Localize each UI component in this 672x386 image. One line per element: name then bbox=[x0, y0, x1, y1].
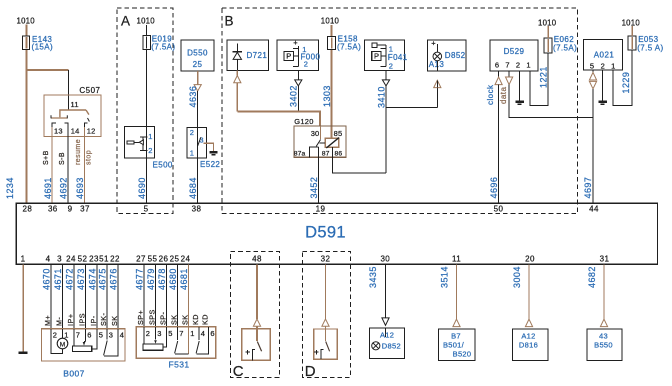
svg-text:4673: 4673 bbox=[76, 268, 86, 290]
wire 4672 D591 pin 24 to B007 pin 7 bbox=[73, 264, 75, 329]
connector arrow (up) under D852/A13 bbox=[434, 80, 441, 87]
D529 pin 7 data wire bbox=[508, 71, 510, 77]
svg-text:14: 14 bbox=[71, 127, 80, 136]
svg-text:3004: 3004 bbox=[512, 266, 522, 288]
wire G120 pin 86 to F041 circuit bbox=[333, 147, 387, 173]
svg-text:2: 2 bbox=[190, 128, 195, 137]
svg-text:M: M bbox=[60, 341, 65, 348]
wire 4671 D591 pin 3 to B007 pin 1 bbox=[62, 264, 64, 329]
svg-text:3514: 3514 bbox=[440, 266, 450, 288]
F531 KD switch pins 4-6 bbox=[198, 327, 200, 340]
control unit A021 bbox=[584, 40, 623, 71]
svg-text:2: 2 bbox=[516, 60, 520, 69]
fuse E143 (15A) bbox=[23, 36, 30, 50]
svg-text:1: 1 bbox=[190, 148, 195, 157]
svg-text:1: 1 bbox=[148, 132, 153, 141]
wire 3410 bbox=[385, 86, 387, 173]
svg-text:7: 7 bbox=[505, 60, 509, 69]
wire 4676 D591 pin 22 to B007 pin 4 bbox=[117, 264, 119, 329]
svg-text:7: 7 bbox=[179, 329, 183, 338]
svg-text:11: 11 bbox=[452, 254, 461, 263]
wire 4678 D591 pin 26 to F531 pin 5 bbox=[166, 264, 168, 327]
svg-text:30: 30 bbox=[380, 254, 390, 263]
svg-text:B: B bbox=[225, 14, 234, 29]
svg-text:B007: B007 bbox=[63, 369, 84, 379]
wire 4636 to switch E522 bbox=[197, 91, 199, 127]
svg-text:D816: D816 bbox=[519, 341, 538, 350]
svg-text:E522: E522 bbox=[200, 160, 220, 169]
B007 wash pump motor M bbox=[62, 329, 64, 338]
svg-text:4670: 4670 bbox=[41, 268, 51, 290]
svg-text:36: 36 bbox=[48, 204, 58, 213]
wire 4675 D591 pin 51 to B007 pin 3 bbox=[106, 264, 108, 329]
branch wire to indicator lamp D852 bbox=[386, 107, 437, 109]
svg-text:6: 6 bbox=[210, 329, 214, 338]
svg-text:SK-: SK- bbox=[99, 313, 108, 326]
wire 1234 brown feed from fuse E143 down to D591 pin 28 bbox=[26, 25, 28, 204]
A021 pin 5 wire with double arrows bbox=[592, 70, 594, 72]
brake switch in box C bbox=[242, 329, 270, 361]
svg-text:87a: 87a bbox=[294, 151, 306, 158]
wire from D591 pin 48 (thick brown) bbox=[256, 264, 258, 319]
connector arrow (up) on clock wire bbox=[495, 77, 502, 85]
svg-text:1010: 1010 bbox=[538, 18, 557, 27]
svg-text:23: 23 bbox=[89, 254, 99, 263]
svg-text:1010: 1010 bbox=[17, 16, 36, 25]
wire from D550 to connector bbox=[197, 71, 199, 85]
svg-text:4636: 4636 bbox=[188, 86, 198, 108]
connector arrow (down) under F041 bbox=[382, 80, 389, 86]
svg-text:2: 2 bbox=[389, 62, 394, 71]
wire from D852 arrow down to 3410 branch bbox=[436, 80, 438, 87]
svg-text:(7.5A): (7.5A) bbox=[553, 43, 577, 52]
wire 4674 D591 pin 23 to B007 pin 5 bbox=[96, 264, 98, 329]
svg-text:1234: 1234 bbox=[5, 177, 15, 199]
relay feed line (brown) D721/F000 to G120 pin 30 bbox=[237, 112, 320, 126]
svg-text:A13: A13 bbox=[429, 60, 445, 69]
svg-text:1221: 1221 bbox=[538, 66, 548, 88]
svg-text:B501/: B501/ bbox=[443, 341, 465, 350]
svg-text:(15A): (15A) bbox=[32, 43, 54, 52]
buzzer E500 bbox=[125, 127, 155, 159]
svg-text:2: 2 bbox=[53, 330, 57, 339]
svg-text:+: + bbox=[293, 38, 298, 47]
svg-text:20: 20 bbox=[525, 254, 535, 263]
svg-text:4682: 4682 bbox=[587, 266, 597, 288]
sensor B7 / B501 / B520 bbox=[439, 329, 476, 360]
connector arrow (up) below D721 bbox=[234, 76, 241, 83]
svg-text:38: 38 bbox=[192, 204, 202, 213]
svg-text:D721: D721 bbox=[247, 51, 268, 60]
G120 switch blade bbox=[316, 140, 320, 147]
svg-text:(7.5A): (7.5A) bbox=[337, 43, 361, 52]
svg-text:4677: 4677 bbox=[134, 268, 144, 290]
svg-text:30: 30 bbox=[311, 129, 320, 138]
brown wire from D721 down to relay feed line bbox=[236, 83, 238, 112]
svg-text:37: 37 bbox=[80, 204, 90, 213]
steering wheel switch F531 bbox=[136, 327, 215, 359]
connector arrow (up) in box D bbox=[322, 319, 329, 326]
svg-text:52: 52 bbox=[78, 254, 88, 263]
instrument A12 with D816 bbox=[513, 329, 548, 360]
svg-text:IP+: IP+ bbox=[66, 314, 75, 326]
svg-text:B7: B7 bbox=[451, 332, 461, 341]
wire F000 pin 2 down bbox=[297, 71, 299, 80]
svg-text:(7.5 A): (7.5 A) bbox=[637, 43, 663, 52]
dashed option box C bbox=[231, 251, 280, 377]
wire 4697 to D591 pin 44 bbox=[592, 89, 594, 203]
svg-text:4693: 4693 bbox=[75, 177, 85, 199]
svg-text:4681: 4681 bbox=[179, 268, 189, 290]
fuse E053 (7.5 A) bbox=[628, 36, 636, 50]
svg-text:1: 1 bbox=[21, 254, 26, 263]
wire from D591 pin 32 bbox=[325, 264, 327, 319]
svg-text:7: 7 bbox=[76, 330, 80, 339]
dashed option box A bbox=[117, 8, 173, 214]
C507 pin 12 blade lead bbox=[88, 118, 90, 122]
svg-text:22: 22 bbox=[110, 254, 120, 263]
svg-text:SK: SK bbox=[169, 315, 178, 326]
svg-text:4: 4 bbox=[46, 254, 51, 263]
connector arrow (down) on data wire bbox=[506, 77, 513, 85]
G120 pin 30 wire (brown feed) bbox=[320, 126, 322, 139]
svg-text:11: 11 bbox=[71, 100, 79, 109]
svg-text:1: 1 bbox=[64, 330, 68, 339]
wire 3402 to relay feed line bbox=[297, 86, 299, 112]
wire 4677 D591 pin 27 to F531 pin 2 bbox=[143, 264, 145, 327]
svg-text:2: 2 bbox=[601, 61, 605, 70]
svg-text:B520: B520 bbox=[453, 350, 472, 359]
svg-text:13: 13 bbox=[54, 127, 63, 136]
svg-text:48: 48 bbox=[252, 254, 262, 263]
plus terminal in box C bbox=[245, 351, 250, 353]
svg-text:24: 24 bbox=[66, 254, 76, 263]
svg-text:1010: 1010 bbox=[321, 16, 340, 25]
D529 pin 2 wire to ground bbox=[519, 71, 521, 101]
svg-text:IP-: IP- bbox=[89, 315, 98, 326]
control unit D550 bbox=[181, 40, 214, 71]
svg-text:1010: 1010 bbox=[137, 16, 156, 25]
instrument A12 with lamp D852 bbox=[370, 328, 405, 359]
svg-text:4684: 4684 bbox=[188, 177, 198, 199]
svg-text:12: 12 bbox=[87, 127, 96, 136]
wire 4679 D591 pin 55 to F531 pin 3 bbox=[155, 264, 157, 327]
svg-text:5: 5 bbox=[99, 330, 103, 339]
wire 4692 C507 pin14 to D591 pin9 bbox=[67, 127, 69, 203]
wire F041 pin 2 down bbox=[385, 71, 387, 80]
fuse E019 (7.5A) bbox=[143, 36, 151, 50]
D529 pin 6 clock wire bbox=[498, 71, 500, 77]
svg-text:SK: SK bbox=[180, 315, 189, 326]
pump F000 bbox=[277, 40, 318, 71]
svg-text:3435: 3435 bbox=[368, 266, 378, 288]
B007 park switch pins 3-4 bbox=[106, 329, 108, 340]
wire 4696 clock to D591 pin 50 bbox=[498, 85, 500, 204]
svg-text:9: 9 bbox=[68, 204, 73, 213]
svg-text:4: 4 bbox=[120, 330, 124, 339]
svg-text:4674: 4674 bbox=[87, 268, 97, 290]
svg-text:3: 3 bbox=[157, 329, 161, 338]
wire from D721 to connector arrow bbox=[236, 71, 238, 76]
svg-text:1: 1 bbox=[190, 329, 194, 338]
svg-text:24: 24 bbox=[181, 254, 191, 263]
svg-text:D852: D852 bbox=[445, 51, 466, 60]
svg-text:data: data bbox=[499, 87, 508, 104]
svg-text:85: 85 bbox=[334, 129, 343, 138]
fuse E158 (7.5A) bbox=[328, 37, 336, 50]
wire 4681 D591 pin 24 to F531 pin 1 bbox=[188, 264, 190, 327]
indicator lamp D852 in instrument A13 bbox=[428, 40, 467, 71]
svg-text:E500: E500 bbox=[153, 161, 173, 170]
G120 coil bbox=[325, 138, 339, 147]
C507 contact strip pins 13-14 bbox=[51, 117, 67, 119]
G120 coil actuation link bbox=[320, 142, 326, 144]
svg-text:32: 32 bbox=[321, 254, 331, 263]
svg-text:D: D bbox=[305, 363, 316, 380]
F531 SK switch pins 7-1 bbox=[177, 327, 179, 340]
wire 4670 D591 pin 4 to B007 pin 2 bbox=[50, 264, 52, 329]
svg-text:4678: 4678 bbox=[157, 268, 167, 290]
svg-text:P: P bbox=[374, 51, 379, 60]
data wire down and right to A021 bbox=[509, 85, 593, 118]
svg-text:4697: 4697 bbox=[583, 177, 593, 199]
wire 4680 D591 pin 25 to F531 pin 7 bbox=[177, 264, 179, 327]
svg-text:4696: 4696 bbox=[489, 177, 499, 199]
svg-text:86: 86 bbox=[335, 151, 343, 158]
ground under pin 1 bbox=[18, 351, 27, 354]
svg-text:C507: C507 bbox=[79, 86, 100, 95]
dashed option box B bbox=[222, 8, 578, 214]
svg-text:3: 3 bbox=[109, 330, 113, 339]
svg-text:4676: 4676 bbox=[108, 268, 118, 290]
svg-text:3402: 3402 bbox=[289, 85, 299, 107]
diode D721 bbox=[227, 40, 268, 71]
svg-text:2: 2 bbox=[146, 329, 150, 338]
svg-text:A12: A12 bbox=[380, 330, 394, 339]
svg-text:26: 26 bbox=[159, 254, 169, 263]
svg-text:SP+: SP+ bbox=[136, 310, 145, 325]
svg-text:IPS: IPS bbox=[77, 313, 86, 326]
svg-text:D591: D591 bbox=[305, 224, 346, 242]
svg-text:G120: G120 bbox=[294, 117, 314, 126]
svg-text:28: 28 bbox=[23, 204, 33, 213]
svg-text:KD: KD bbox=[191, 314, 200, 325]
svg-text:51: 51 bbox=[99, 254, 109, 263]
svg-text:resume: resume bbox=[75, 139, 82, 165]
C507 pin hooks bbox=[52, 123, 56, 127]
svg-text:44: 44 bbox=[589, 204, 599, 213]
svg-text:4: 4 bbox=[201, 329, 205, 338]
wire 4693 C507 pin12 to D591 pin37 bbox=[84, 127, 86, 203]
svg-text:clock: clock bbox=[486, 84, 495, 105]
svg-text:C: C bbox=[233, 363, 244, 380]
brake switch in box D bbox=[314, 329, 338, 359]
connector arrow (down) on wire 3435 bbox=[382, 318, 389, 326]
dashed option box D bbox=[303, 251, 351, 377]
svg-text:A: A bbox=[121, 14, 130, 29]
svg-text:5: 5 bbox=[168, 329, 172, 338]
svg-text:1: 1 bbox=[611, 61, 615, 70]
svg-text:A12: A12 bbox=[521, 332, 535, 341]
svg-text:4690: 4690 bbox=[137, 177, 147, 199]
fuse E062 (7.5A) bbox=[544, 38, 552, 53]
D529 pin 1 wire to fuse E062 bbox=[530, 53, 548, 106]
wiper motor assembly B007 bbox=[42, 329, 125, 361]
svg-text:3452: 3452 bbox=[309, 177, 319, 199]
svg-text:4671: 4671 bbox=[53, 268, 63, 290]
svg-text:4692: 4692 bbox=[58, 177, 68, 199]
svg-text:27: 27 bbox=[136, 254, 146, 263]
svg-text:4675: 4675 bbox=[97, 268, 107, 290]
svg-text:M-: M- bbox=[54, 317, 63, 326]
E522 pin 3 wire to ground bbox=[203, 143, 213, 151]
svg-text:25: 25 bbox=[193, 60, 203, 69]
svg-text:SPS: SPS bbox=[147, 309, 156, 325]
svg-text:6: 6 bbox=[495, 60, 499, 69]
svg-text:25: 25 bbox=[170, 254, 180, 263]
C507 internal switch bracket (common from pin 11) bbox=[60, 110, 86, 117]
wire 4691 C507 pin13 to D591 pin36 bbox=[51, 127, 53, 203]
wire D591 pin 1 to ground bbox=[22, 264, 24, 351]
svg-text:4679: 4679 bbox=[146, 268, 156, 290]
ground at D529 bbox=[515, 101, 523, 103]
svg-text:2: 2 bbox=[148, 146, 153, 155]
svg-text:(7.5A): (7.5A) bbox=[151, 43, 175, 52]
svg-text:5: 5 bbox=[590, 61, 594, 70]
wire 4684 E522 to D591 pin 38 bbox=[197, 158, 199, 203]
svg-text:55: 55 bbox=[148, 254, 158, 263]
control unit D529 bbox=[490, 40, 538, 71]
connector arrow (up) on wire 3514 bbox=[453, 319, 460, 327]
B007 wiper position potentiometer bbox=[73, 329, 75, 346]
svg-text:M+: M+ bbox=[43, 315, 52, 326]
ground at A021 bbox=[599, 101, 607, 103]
svg-text:5: 5 bbox=[144, 204, 149, 213]
connector arrow (up) in box C bbox=[253, 319, 260, 326]
svg-text:3: 3 bbox=[57, 254, 62, 263]
svg-text:2: 2 bbox=[304, 59, 309, 68]
svg-text:1303: 1303 bbox=[322, 85, 332, 107]
F531 speed set potentiometer bbox=[143, 327, 145, 344]
wire 3452 G120 pin 87 to D591 pin 19 bbox=[318, 147, 320, 203]
connector arrow (down) under F000 bbox=[295, 80, 302, 86]
svg-text:D852: D852 bbox=[382, 342, 401, 351]
svg-text:1229: 1229 bbox=[621, 72, 631, 94]
clutch switch E522 bbox=[187, 127, 207, 158]
svg-text:P: P bbox=[286, 51, 291, 60]
svg-text:31: 31 bbox=[600, 254, 610, 263]
svg-text:19: 19 bbox=[316, 204, 326, 213]
svg-text:87: 87 bbox=[322, 151, 330, 158]
sensor 43 / B550 bbox=[587, 329, 622, 360]
svg-text:50: 50 bbox=[494, 204, 504, 213]
svg-text:+: + bbox=[431, 38, 436, 47]
A021 pin 2 wire to ground bbox=[602, 70, 604, 101]
svg-text:6: 6 bbox=[87, 330, 91, 339]
wire branch to C507 pin 11 bbox=[27, 69, 69, 71]
svg-text:B550: B550 bbox=[594, 341, 613, 350]
G120 pin 87a contact bracket bbox=[310, 147, 319, 157]
svg-text:SP-: SP- bbox=[158, 312, 167, 325]
control unit D591 bbox=[16, 203, 657, 264]
connector arrow (up) on wire 4682 bbox=[600, 319, 607, 327]
A021 pin 1 wire to fuse E053 bbox=[613, 50, 632, 106]
svg-text:S-B: S-B bbox=[59, 152, 66, 165]
svg-text:4691: 4691 bbox=[43, 177, 53, 199]
svg-text:D550: D550 bbox=[187, 49, 208, 58]
svg-text:F531: F531 bbox=[169, 360, 190, 370]
svg-text:S+B: S+B bbox=[43, 150, 50, 165]
plus terminal in box D bbox=[314, 351, 319, 353]
svg-text:4680: 4680 bbox=[168, 268, 178, 290]
svg-text:43: 43 bbox=[599, 332, 608, 341]
wire 4673 D591 pin 52 to B007 pin 6 bbox=[85, 264, 87, 329]
connector arrow (up) on wire 3004 bbox=[525, 319, 532, 327]
svg-text:D529: D529 bbox=[504, 47, 525, 56]
wire from branch into C507 pin 11 bbox=[68, 70, 70, 110]
svg-text:KD: KD bbox=[200, 314, 209, 325]
svg-text:1: 1 bbox=[526, 60, 530, 69]
connector arrow (down) to E522 bbox=[194, 85, 201, 91]
svg-text:1010: 1010 bbox=[622, 18, 641, 27]
pump F041 bbox=[364, 40, 404, 71]
svg-text:A021: A021 bbox=[594, 50, 615, 59]
svg-text:stop: stop bbox=[86, 150, 93, 165]
ground at E522 bbox=[209, 151, 217, 153]
svg-text:3410: 3410 bbox=[376, 86, 386, 108]
svg-text:SK: SK bbox=[110, 316, 119, 327]
svg-text:4672: 4672 bbox=[64, 268, 74, 290]
switch module C507 bbox=[44, 95, 101, 137]
